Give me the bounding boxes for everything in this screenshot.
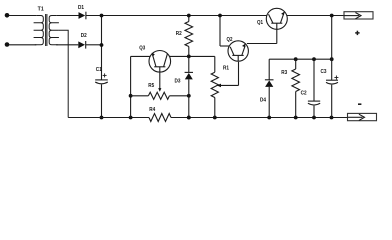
svg-text:D2: D2 [81, 33, 87, 39]
svg-text:T1: T1 [38, 7, 44, 13]
svg-text:R2: R2 [176, 31, 182, 37]
svg-text:R3: R3 [281, 70, 287, 76]
svg-text:Q3: Q3 [139, 46, 145, 52]
svg-text:D4: D4 [260, 97, 266, 103]
svg-text:R4: R4 [149, 107, 155, 113]
svg-text:R5: R5 [148, 83, 154, 89]
svg-text:Q1: Q1 [257, 20, 263, 26]
svg-text:C2: C2 [301, 90, 307, 96]
svg-text:D3: D3 [175, 79, 181, 85]
svg-text:C3: C3 [321, 69, 327, 75]
svg-text:Q2: Q2 [227, 37, 233, 43]
svg-text:D1: D1 [78, 5, 84, 11]
svg-text:R1: R1 [223, 66, 229, 72]
svg-text:C1: C1 [96, 67, 102, 73]
